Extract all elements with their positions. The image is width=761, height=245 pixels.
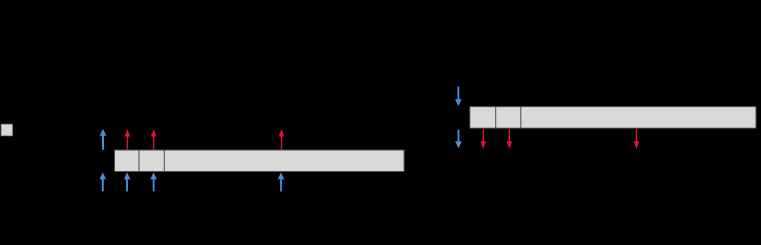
left bar divider 2: [163, 150, 165, 172]
legend swatch: gray square: [1, 124, 12, 135]
red up arrow above left bar middle: [279, 129, 285, 150]
blue up arrow below-left of left bar: [100, 172, 107, 191]
blue down arrow above-left of right bar: [455, 87, 462, 107]
blue up arrow below left bar seg2: [150, 172, 157, 191]
right bar divider 1: [495, 107, 497, 129]
right frame bar (downlink): [470, 107, 756, 129]
blue up arrow below left bar seg1: [124, 172, 131, 191]
red down arrow below right bar seg1: [480, 129, 486, 149]
left bar divider 1: [138, 150, 140, 172]
right bar divider 2: [520, 107, 522, 129]
red up arrow above left bar seg2: [151, 129, 157, 150]
blue up arrow below left bar middle: [278, 172, 285, 191]
red up arrow above left bar seg1: [125, 129, 131, 150]
red down arrow below right bar seg2: [507, 129, 513, 149]
blue down arrow below-left of right bar: [455, 130, 462, 149]
left frame bar (uplink): [115, 150, 405, 172]
red down arrow below right bar middle: [634, 129, 640, 149]
blue up arrow above-left of left bar: [100, 129, 107, 150]
